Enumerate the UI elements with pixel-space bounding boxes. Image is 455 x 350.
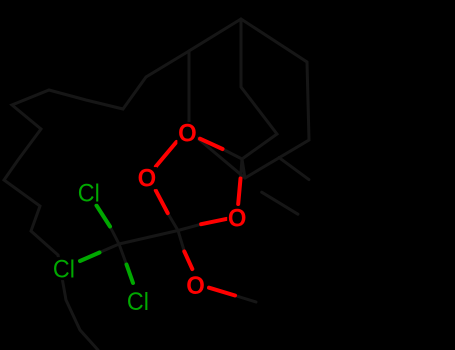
svg-text:O: O [138, 165, 157, 193]
svg-text:Cl: Cl [78, 179, 100, 207]
svg-text:Cl: Cl [53, 256, 75, 284]
svg-text:O: O [186, 272, 205, 300]
svg-text:O: O [178, 120, 197, 148]
svg-text:Cl: Cl [127, 288, 149, 316]
svg-text:O: O [228, 204, 247, 232]
